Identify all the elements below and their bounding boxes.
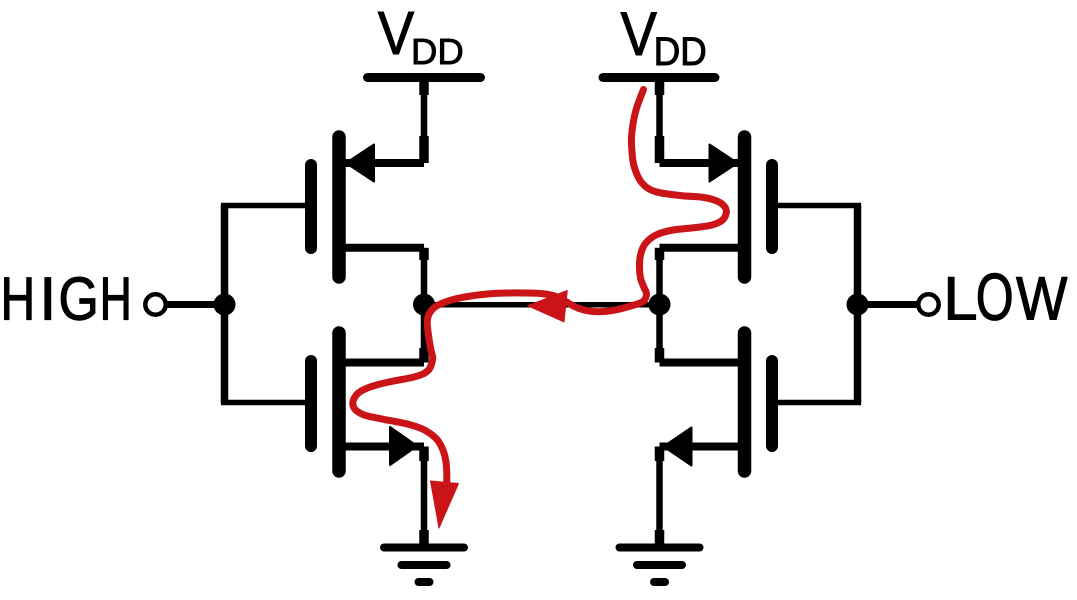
Q4 gate bar (766, 361, 778, 446)
Q3 source wire (660, 159, 743, 167)
VDD label left (378, 12, 462, 64)
Q2 channel bar (332, 333, 346, 471)
HIGH input wire (167, 301, 226, 308)
current arrow (end, pointing down into ground) (431, 481, 459, 528)
HIGH input terminal circle (145, 294, 165, 314)
Q1 gate wire (221, 203, 307, 209)
node B junction dot (right output) (649, 294, 671, 316)
Q1 source arrow (PMOS, points into channel) (346, 145, 374, 182)
Q3 drain wire (660, 244, 743, 252)
ground symbol right (620, 548, 700, 583)
gate bus junction dot (left input node) (214, 294, 236, 316)
Q4 channel bar (738, 333, 752, 471)
VDD rail left (368, 73, 481, 82)
Q1 drain wire (341, 244, 424, 252)
Q1 channel bar (332, 137, 346, 277)
Q2 gate bar (305, 361, 317, 446)
wire Q1 drain to output node A (419, 248, 429, 296)
Q4 drain wire (660, 359, 743, 367)
HIGH label (5, 277, 129, 320)
wire Q3 drain to output node B (655, 248, 665, 296)
NMOS Q4 (right, bottom) (660, 333, 862, 471)
node A junction dot (left output) (413, 294, 435, 316)
Q4 source arrow (NMOS, points away from channel) (664, 428, 692, 466)
Q1 source wire (341, 159, 424, 167)
Q2 drain wire (341, 359, 424, 367)
Q3 channel bar (738, 137, 752, 277)
Q4 source wire (660, 443, 743, 451)
Q3 gate wire (776, 203, 861, 209)
PMOS Q3 (right, top) (660, 137, 862, 277)
wire Q2 source to ground (419, 447, 429, 548)
Q2 source wire (341, 443, 424, 451)
wire node B down to NMOS drain (656, 313, 663, 363)
PMOS Q1 (left, top) (221, 137, 424, 277)
NMOS Q2 (left, bottom) (221, 333, 424, 471)
LOW input wire (856, 301, 917, 308)
LOW label (948, 273, 1067, 320)
Q2 gate wire (221, 400, 307, 406)
wire VDD to PMOS source (left) (421, 79, 428, 163)
Q4 gate wire (776, 400, 861, 406)
LOW input terminal circle (918, 294, 938, 314)
current path curve (353, 90, 727, 482)
Q3 source arrow (PMOS, points into channel) (710, 145, 738, 182)
VDD rail right (603, 73, 715, 82)
VDD label right (621, 13, 705, 66)
wire node A down to NMOS drain (421, 313, 428, 363)
left gate bus wire (221, 206, 229, 403)
Q3 gate bar (766, 165, 778, 248)
Q2 source arrow (NMOS, points away from channel) (390, 427, 417, 465)
Q1 gate bar (305, 165, 317, 248)
right gate bus wire (854, 206, 862, 403)
current arrow (mid, pointing left along wire) (528, 291, 568, 322)
wire VDD to PMOS source (right) (656, 79, 663, 163)
ground symbol left (384, 548, 464, 583)
gate bus junction dot (right input node) (847, 294, 869, 316)
wire Q4 source to ground (655, 447, 665, 548)
